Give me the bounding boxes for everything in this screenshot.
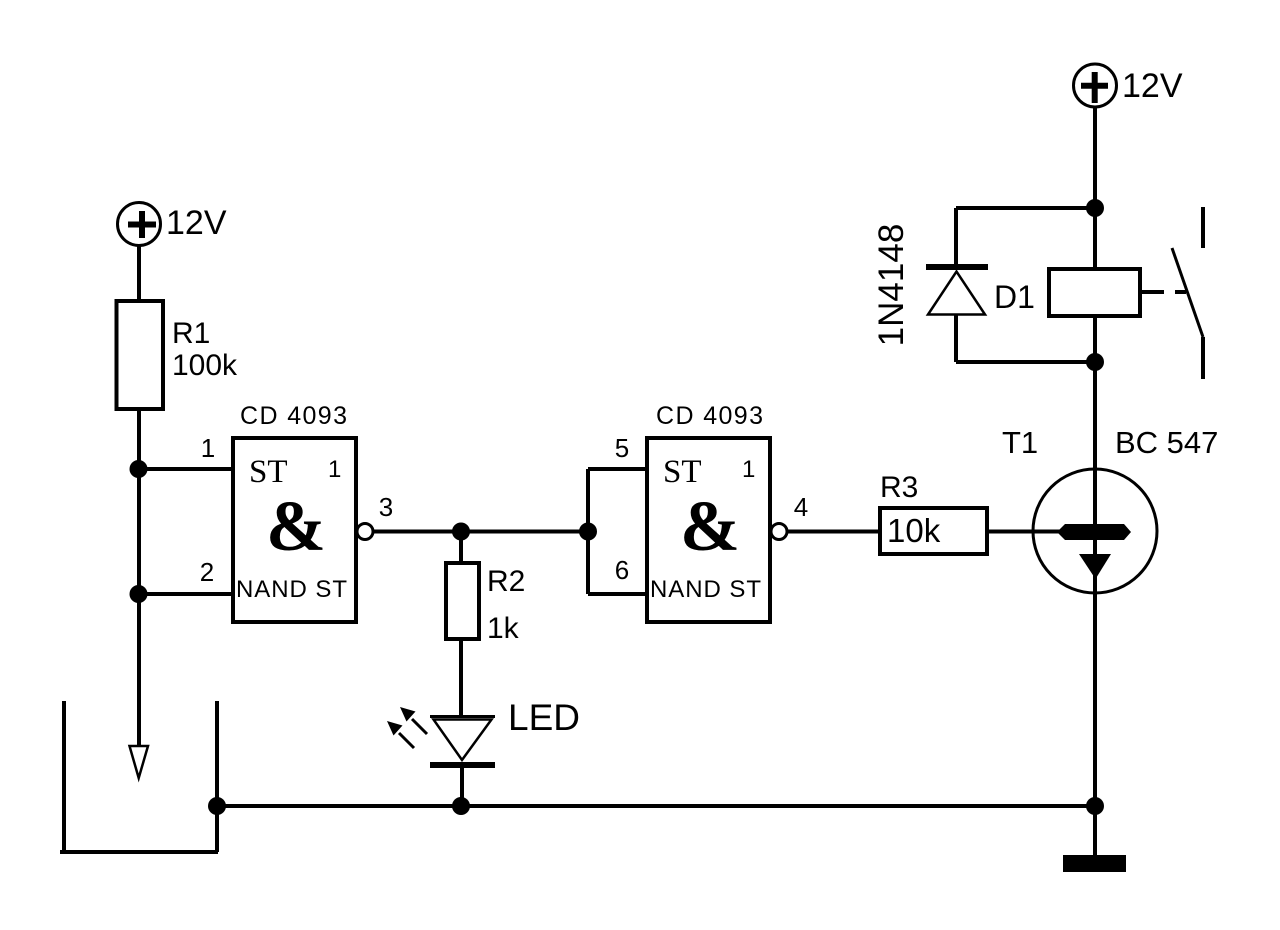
svg-text:R1: R1 [172, 317, 210, 350]
svg-text:D1: D1 [994, 279, 1035, 315]
svg-text:NAND ST: NAND ST [236, 576, 347, 603]
svg-text:CD 4093: CD 4093 [240, 402, 347, 430]
svg-text:4: 4 [794, 492, 808, 522]
svg-text:&: & [266, 486, 326, 566]
svg-text:5: 5 [615, 433, 629, 463]
svg-text:BC 547: BC 547 [1115, 425, 1218, 460]
svg-text:1: 1 [742, 456, 755, 483]
svg-text:6: 6 [615, 555, 629, 585]
svg-text:T1: T1 [1002, 425, 1038, 460]
svg-text:100k: 100k [172, 349, 238, 382]
svg-text:CD 4093: CD 4093 [656, 402, 763, 430]
svg-text:1k: 1k [487, 612, 520, 645]
svg-text:R2: R2 [487, 565, 525, 598]
svg-text:ST: ST [249, 454, 288, 490]
svg-text:12V: 12V [166, 204, 227, 242]
svg-text:LED: LED [508, 697, 580, 738]
svg-text:&: & [680, 486, 740, 566]
svg-text:3: 3 [379, 492, 393, 522]
svg-text:10k: 10k [887, 512, 941, 549]
svg-text:1: 1 [328, 456, 341, 483]
svg-text:2: 2 [200, 557, 214, 587]
svg-text:ST: ST [663, 454, 702, 490]
svg-text:12V: 12V [1122, 67, 1183, 105]
svg-text:NAND ST: NAND ST [650, 576, 761, 603]
svg-text:R3: R3 [880, 471, 918, 504]
svg-text:1N4148: 1N4148 [872, 224, 911, 347]
svg-text:1: 1 [201, 433, 215, 463]
